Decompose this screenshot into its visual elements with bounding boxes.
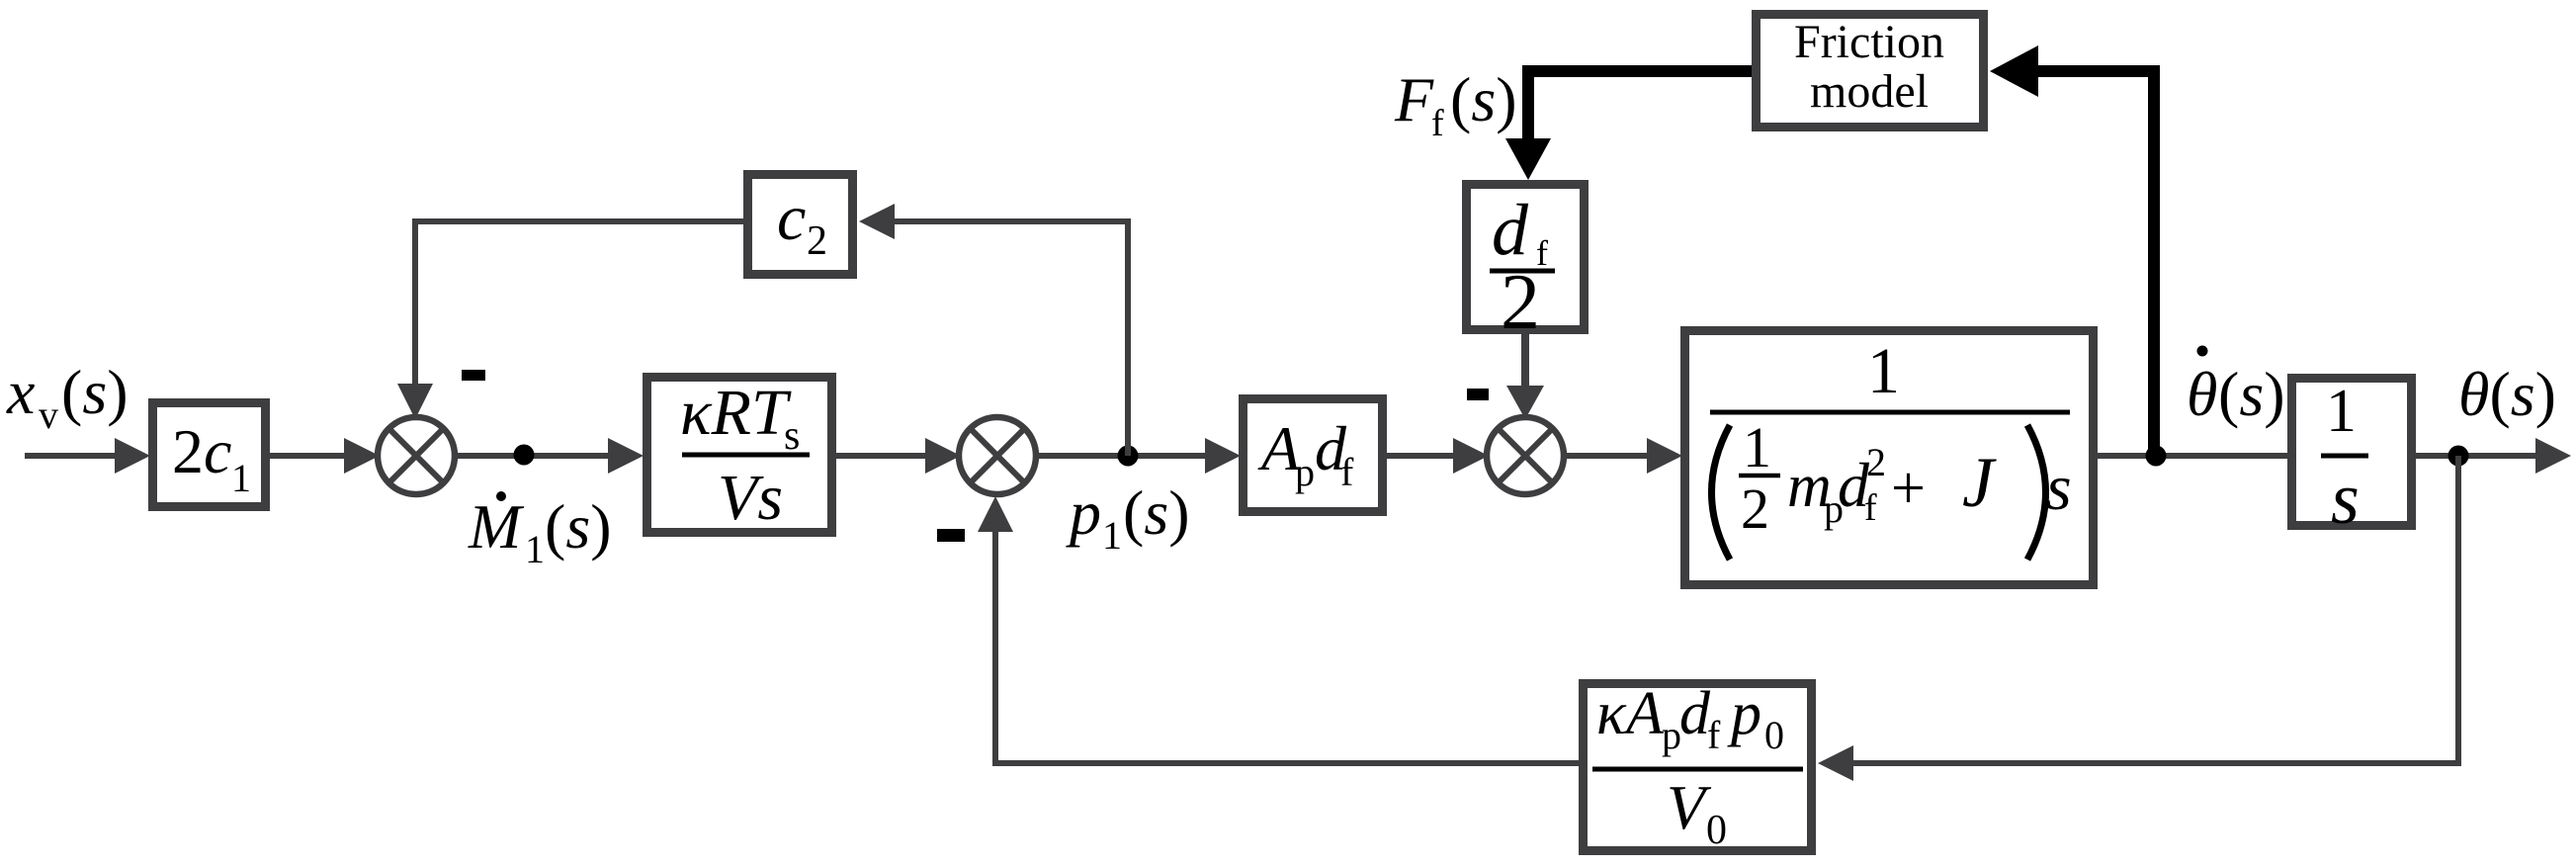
svg-text:c: c (777, 182, 806, 254)
summing junction S2 (959, 417, 1036, 494)
wire theta node down to bottom block (1851, 456, 2458, 763)
wire kRTs to sum2 (836, 453, 927, 459)
svg-text:1: 1 (2326, 378, 2357, 445)
node p1 dot (1118, 446, 1139, 467)
wire 1/s to output (2416, 453, 2537, 459)
svg-text:1: 1 (231, 456, 251, 500)
block kRTs/Vs (647, 377, 832, 534)
block friction model (1757, 15, 1984, 128)
minus sign at S3 top input (1467, 389, 1489, 400)
block c2 (748, 175, 853, 275)
svg-text:+: + (1891, 455, 1926, 522)
svg-text:θ: θ (2187, 359, 2217, 429)
svg-text:M: M (468, 491, 525, 562)
svg-text:(s): (s) (2218, 359, 2285, 429)
wire big block to 1/s (2098, 453, 2287, 459)
svg-text:model: model (1810, 65, 1929, 118)
svg-text:(s): (s) (1450, 64, 1517, 134)
node label x_v(s) (6, 357, 129, 437)
summing junction S1 (378, 417, 455, 494)
wire p1 node up to c2 block (893, 221, 1128, 456)
svg-text:f: f (1864, 487, 1877, 529)
svg-text:f: f (1340, 450, 1354, 494)
svg-text:2: 2 (172, 416, 204, 486)
svg-text:c: c (204, 416, 231, 486)
block 2c1 (153, 403, 266, 507)
svg-text:p: p (1066, 477, 1101, 548)
svg-text:Friction: Friction (1794, 16, 1944, 68)
svg-text:Vs: Vs (718, 462, 783, 534)
svg-text:2: 2 (1501, 259, 1540, 346)
svg-text:κ: κ (1596, 680, 1627, 747)
wire c2 to S1 top (415, 221, 743, 386)
block df/2 (1467, 185, 1585, 347)
svg-text:κRT: κRT (680, 377, 792, 449)
wire friction model to df2 (black) (1528, 71, 1752, 142)
svg-text:f: f (1431, 103, 1444, 144)
svg-text:1: 1 (1867, 335, 1900, 407)
block Apdf (1244, 399, 1383, 512)
svg-text:1: 1 (525, 527, 545, 571)
svg-text:A: A (1622, 680, 1665, 747)
svg-text:2: 2 (1741, 477, 1769, 541)
wire bottom block to S2 bottom (995, 530, 1579, 763)
minus sign at S1 top input (462, 370, 485, 381)
svg-text:s: s (784, 413, 800, 459)
svg-text:s: s (2046, 452, 2072, 524)
svg-text:0: 0 (1764, 713, 1784, 757)
svg-text:v: v (39, 392, 58, 437)
svg-text:p: p (1295, 450, 1315, 494)
svg-text:f: f (1707, 713, 1721, 757)
svg-text:1: 1 (1102, 513, 1122, 558)
svg-text:0: 0 (1706, 808, 1727, 853)
svg-text:p: p (1727, 680, 1761, 747)
node label Ff(s) (1394, 64, 1517, 144)
wire input (25, 453, 117, 459)
node label thetadot(s) (2187, 346, 2285, 430)
svg-text:F: F (1394, 64, 1434, 134)
node M1 dot (514, 445, 535, 466)
svg-text:1: 1 (1743, 415, 1771, 479)
summing junction S3 (1487, 417, 1564, 494)
svg-text:2: 2 (1866, 440, 1886, 484)
svg-text:(s): (s) (545, 491, 612, 562)
wire S2 to Apdf block (1036, 453, 1207, 459)
svg-text:(s): (s) (61, 357, 129, 427)
svg-text:p: p (1662, 713, 1681, 757)
wire Apdf to sum3 (1387, 453, 1455, 459)
svg-text:x: x (6, 357, 35, 427)
wire S3 to big block (1564, 453, 1649, 459)
minus sign at S2 bottom input (937, 529, 965, 542)
wire S1 to kRTs block (455, 453, 610, 459)
svg-text:s: s (2331, 459, 2360, 540)
block 1/s (2292, 378, 2412, 540)
node label M1(s) (468, 491, 612, 571)
svg-text:J: J (1962, 443, 1997, 522)
block kApdfp0/V0 (1584, 680, 1812, 853)
block 1/((1/2 mp df^2 + J)s) (1685, 331, 2094, 585)
node theta dot (2448, 446, 2469, 467)
wire thetadot node up to friction model (black) (2036, 71, 2154, 456)
svg-text:(s): (s) (1123, 477, 1190, 548)
svg-text:θ(s): θ(s) (2458, 359, 2556, 429)
svg-text:2: 2 (807, 218, 827, 264)
wire 2c1 to sum1 (270, 453, 346, 459)
wire df2 block down to S3 (1521, 334, 1529, 387)
node thetadot dot (2146, 446, 2167, 467)
node label p1(s) (1066, 477, 1190, 558)
